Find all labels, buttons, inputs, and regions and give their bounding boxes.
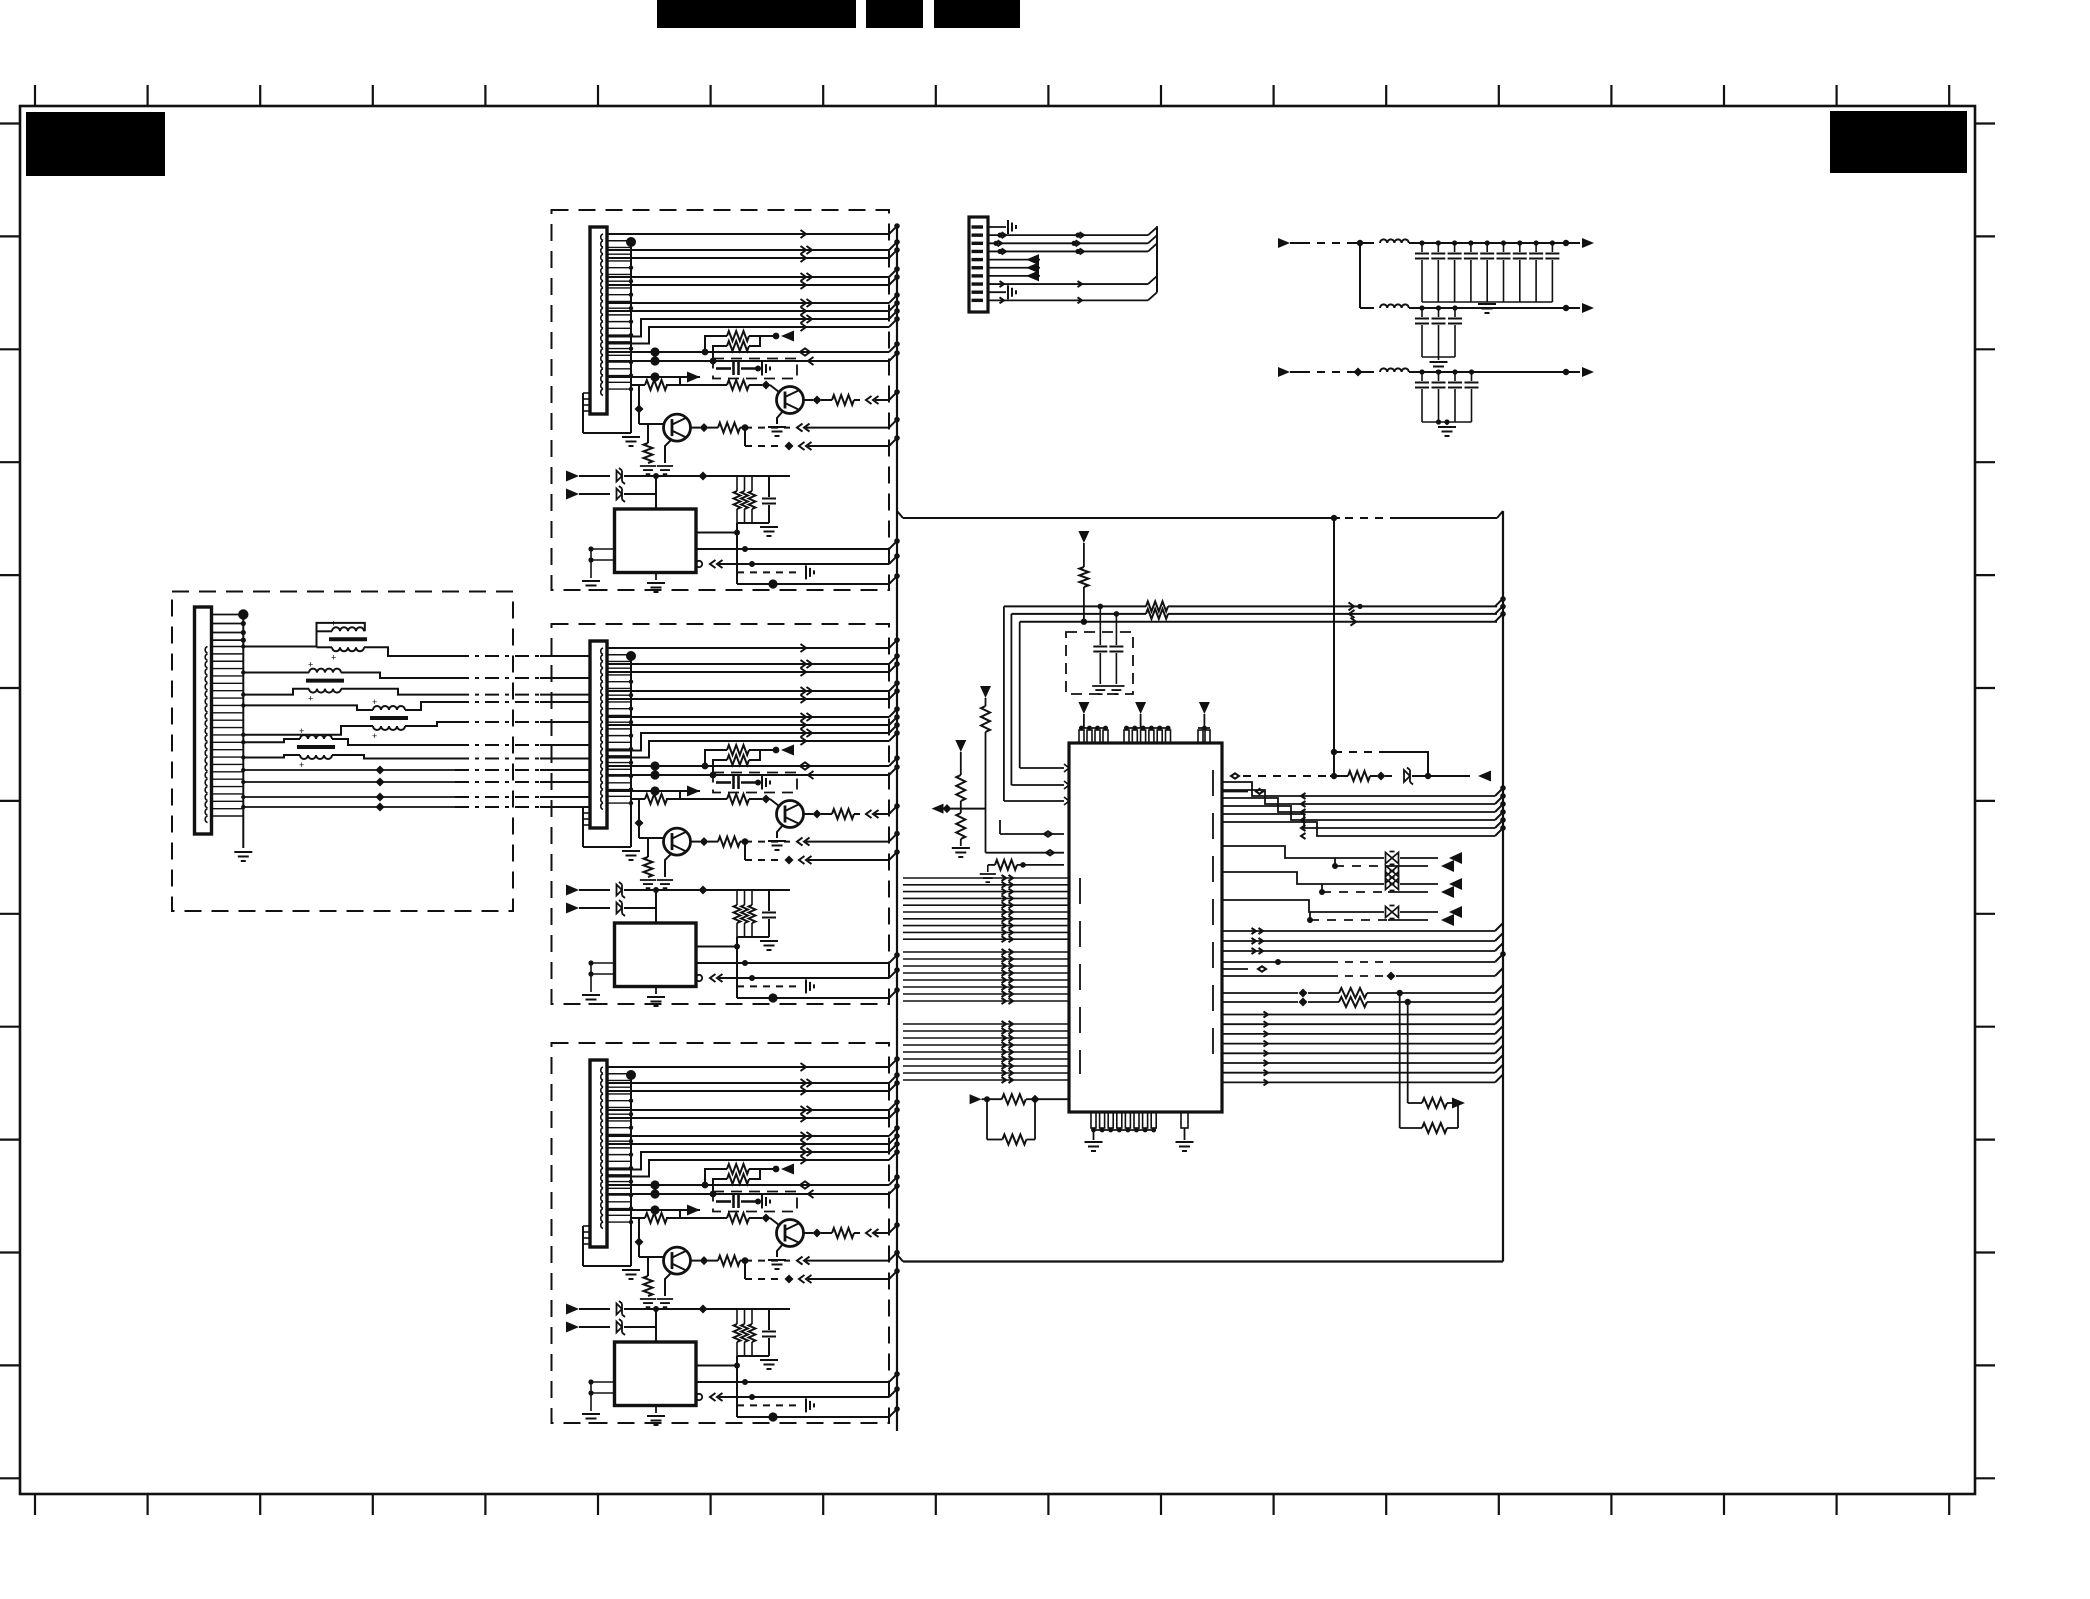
svg-text:+: + — [308, 660, 313, 670]
svg-text:+: + — [331, 652, 336, 662]
svg-text:+: + — [372, 731, 377, 741]
svg-text:+: + — [299, 726, 304, 736]
svg-text:+: + — [308, 694, 313, 704]
svg-text:+: + — [299, 760, 304, 770]
svg-text:+: + — [372, 697, 377, 707]
